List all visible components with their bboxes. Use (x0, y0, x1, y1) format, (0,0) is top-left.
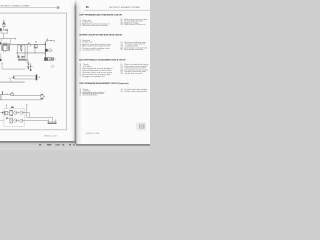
label dash under VB1 (18, 59, 27, 60)
pump P1 (14, 111, 17, 114)
svg-text:11. Clutch solenoid valve gro: 11. Clutch solenoid valve group (120, 63, 148, 66)
section 4 right items (120, 88, 147, 93)
cylinder body (15, 76, 36, 79)
DV1 right cell mark (8, 46, 10, 49)
cylinder left cap (13, 76, 15, 79)
port mark left edge (0, 42, 1, 44)
tank center pipe (51, 120, 53, 122)
VB1 port mark 1 (18, 56, 19, 58)
section 2 right items (120, 41, 147, 51)
pilot valve PV1 on line L1 (4, 43, 7, 46)
cyl small tick (9, 78, 11, 79)
cylinder rod tick (39, 77, 40, 78)
publisher logo box (136, 122, 146, 130)
node on L1 at x27 (27, 44, 28, 45)
section 2 left items (80, 39, 112, 52)
wire VS1 main riser (44, 41, 46, 57)
fitting box dark tick (34, 47, 37, 49)
L4 faint tick (6, 93, 8, 95)
gauge dark circle (45, 49, 48, 52)
CV1 bottom tick (41, 97, 43, 99)
pump P4 (20, 119, 23, 122)
relief valve RV1 body (3, 24, 5, 26)
left page (0, 0, 74, 141)
drop wire x28.8 (28, 61, 30, 65)
VB1 port mark 2 (22, 56, 23, 57)
wire exit row2 to tank (23, 120, 48, 122)
FB1 left fill (44, 58, 47, 61)
wire bus L3 (0, 81, 25, 83)
supply tick (26, 103, 27, 105)
L4 tick dot (2, 91, 3, 92)
svg-text:SECTION 35 - HYDRAULIC SYSTEMS: SECTION 35 - HYDRAULIC SYSTEMS (109, 6, 140, 9)
svg-text:31. Motor hopper conveyor dri: 31. Motor hopper conveyor drive (120, 18, 147, 21)
RV1 crossbar (2, 23, 5, 25)
TC2 dark blob (30, 69, 32, 71)
label dot a (28, 43, 29, 44)
svg-text:ELECTROHYDRAULIC ENGAGEMENT DE: ELECTROHYDRAULIC ENGAGEMENT DEVICE CIRCU… (79, 59, 126, 62)
valve A left cell (4, 111, 5, 115)
wire DV1 down A (3, 51, 5, 53)
DV1 cell divider (6, 46, 8, 51)
relief valve RV1 solenoid (3, 22, 5, 24)
pump P2 (20, 111, 23, 114)
right page (76, 0, 150, 144)
VB1 port mark 3 (23, 56, 24, 57)
CV1 drop to L5 (41, 98, 43, 101)
wire down to port (0, 53, 2, 59)
riser tick (45, 53, 47, 55)
valve D in box (10, 118, 13, 123)
fitting box on L1 (34, 45, 37, 48)
TC1 crossbar (27, 66, 30, 68)
DV1 left cell shading (2, 46, 4, 51)
valve block VB1 (18, 45, 25, 58)
F1 dot (46, 39, 49, 42)
right page bottom edge (76, 144, 150, 146)
P3 dot (16, 120, 17, 121)
stub dark tick (2, 112, 3, 114)
svg-text:HOPPER CONVEYOR FEED AND DRIVE: HOPPER CONVEYOR FEED AND DRIVE CIRCUIT (79, 33, 123, 36)
L4 tick dark (1, 92, 3, 95)
wire MB1 down (3, 33, 5, 39)
CV1 top dot (41, 94, 42, 95)
small circle below FB1 (51, 65, 54, 67)
left page bottom edge (0, 141, 75, 143)
right header rule (84, 9, 150, 11)
wire L5 (0, 99, 42, 101)
section 4 left items (80, 89, 106, 97)
wire to tank top (27, 117, 53, 119)
left stub wire top (0, 112, 4, 114)
supply wire into pump box (26, 104, 28, 117)
VB1 spool (21, 46, 22, 50)
P4 dot (22, 120, 23, 121)
svg-text:1. Tank unit: 1. Tank unit (80, 39, 91, 42)
wire L1 main line (0, 43, 45, 45)
label above pumps (11, 107, 14, 108)
wire DV1 down B (5, 51, 7, 53)
svg-text:1. Tank: 1. Tank (80, 64, 89, 66)
directional valve DV1 (2, 46, 10, 51)
spring valve SV1 (11, 93, 14, 95)
pump enclosure dashed box (4, 108, 24, 126)
wire L2 tick (1, 62, 3, 64)
wire L2 (2, 63, 25, 69)
gauge light circle (49, 49, 52, 52)
tank bottom bar (48, 123, 57, 124)
TC1 dark square (28, 68, 29, 69)
CV1 side dot (43, 95, 46, 98)
VB1 spool arrow (21, 50, 22, 51)
test coupling TC1 stem (27, 64, 29, 70)
cylinder piston bar (36, 75, 38, 81)
wire exit row1 (23, 113, 29, 118)
FB1 divider (49, 58, 51, 61)
svg-text:21. Directional solenoid valv: 21. Directional solenoid valve (120, 41, 146, 44)
manifold block MB1 tab (6, 29, 8, 30)
pipe loop rect (1, 39, 10, 44)
node x35 top (34, 43, 37, 46)
relief valve RV1 stem (3, 21, 5, 23)
enclosure top dot (5, 104, 8, 107)
gutter shadow (70, 0, 82, 144)
internal wire row1 (8, 112, 14, 114)
TC2 crossbar (30, 66, 32, 68)
cyl drop wire (10, 78, 12, 82)
node dark at L1/VS1 junction (45, 44, 47, 46)
wire branch y38.7 (0, 38, 16, 40)
P1 dot (16, 112, 17, 113)
F1 tick above (46, 38, 48, 39)
wire RV1 to manifold (3, 27, 5, 30)
FB1 right outside dash (54, 58, 56, 60)
node x35 bottom (34, 52, 37, 55)
check valve CV1 body (41, 94, 43, 99)
FB1 inner dark squares (51, 58, 52, 60)
SV1 spring (11, 91, 13, 94)
section 3 right items (120, 63, 148, 75)
section 1 left items (80, 19, 111, 27)
tank T1 (48, 119, 56, 122)
tank fluid fill (49, 121, 56, 123)
PV1 inner dot (4, 44, 5, 45)
manifold block MB1 (1, 30, 8, 33)
fitting circle F1 (46, 40, 48, 42)
left stub wire bottom (0, 120, 4, 122)
valve C dash (6, 118, 8, 119)
valve B in box (10, 110, 13, 116)
paper stack marks below left page (39, 144, 75, 145)
valve B top mark (11, 110, 12, 113)
node cross at 15.5,38.7 (15, 38, 17, 40)
gutter spine line (74, 0, 77, 144)
wire L4 left (0, 94, 11, 96)
logo right blob (142, 124, 144, 129)
motor blob M1 (0, 28, 2, 31)
schematic frame (0, 13, 67, 130)
logo glyphs (139, 124, 141, 129)
svg-text:SECTION 35 - HYDRAULIC SYSTEMS: SECTION 35 - HYDRAULIC SYSTEMS (1, 4, 30, 7)
svg-text:84474554 - 04 - 2006: 84474554 - 04 - 2006 (86, 133, 99, 135)
enclosure top tick (6, 105, 8, 108)
TC2 side tick (31, 66, 34, 68)
valve A in box (4, 111, 8, 115)
svg-text:CHIP SPREADER ENGAGEMENT CIRCU: CHIP SPREADER ENGAGEMENT CIRCUIT (option… (79, 82, 129, 85)
svg-text:CHIP SPREADER AND FEED/DRIVE C: CHIP SPREADER AND FEED/DRIVE CIRCUIT (79, 13, 123, 16)
test coupling TC2 stem (30, 64, 32, 70)
background below pages (0, 140, 150, 150)
gauge tick (51, 49, 52, 51)
wire y52.95 (16, 52, 45, 54)
tick between pumps row2 (17, 120, 19, 122)
P2 dot (22, 112, 23, 113)
svg-text:35: 35 (57, 5, 60, 9)
cyl dot (12, 77, 13, 78)
wire L4 right (13, 95, 41, 97)
L5 left riser (0, 95, 2, 100)
valve D inner marks (10, 119, 12, 122)
svg-text:41. Control solenoid cartridg: 41. Control solenoid cartridge (120, 88, 147, 91)
svg-text:1. Tank unit: 1. Tank unit (80, 19, 92, 22)
arrow tick on L1 (30, 44, 32, 47)
label dot b (36, 41, 37, 42)
VB1 spool top dot (21, 45, 22, 46)
wire riser x35 (34, 44, 36, 53)
filter box FB1 (44, 58, 53, 61)
section 1 right items (120, 18, 147, 26)
riser x27 from L1 down (26, 44, 28, 64)
valve B bottom mark (11, 113, 12, 116)
node on hook wire (51, 40, 52, 41)
gutter top fade (70, 0, 82, 7)
port block end dark (0, 59, 2, 61)
wire hook top right (48, 41, 55, 43)
left header rule (0, 7, 56, 9)
pump P3 (14, 119, 17, 122)
tick between pumps row1 (17, 112, 19, 114)
section 3 left items (80, 64, 114, 78)
svg-text:36: 36 (86, 5, 89, 9)
svg-text:84474554 - 04 - 2006: 84474554 - 04 - 2006 (44, 135, 57, 137)
